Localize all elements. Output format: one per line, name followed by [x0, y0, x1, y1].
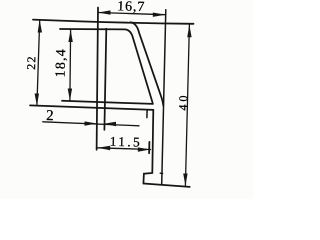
node arrow 11.5 left: [98, 146, 111, 150]
wire nub tick at stem right wall: [160, 172, 162, 174]
node arrow 2 left-pointing (right side): [104, 122, 116, 126]
wire inner top line + inner slant: [60, 29, 153, 103]
node arrow 2 right: [85, 121, 97, 125]
wire left outer vertical wall + extensions: [97, 8, 98, 150]
wire dim line 11.5: [98, 148, 151, 150]
svg-text:22: 22: [24, 55, 38, 70]
node arrow 16,7 left: [98, 10, 111, 14]
node arrow 18,4 top: [68, 30, 72, 42]
wire dim line 40: [185, 25, 189, 186]
wire short tick below outer bottom: [146, 110, 148, 117]
node arrow 40 bottom: [183, 174, 187, 186]
node arrow 40 top: [187, 25, 191, 38]
wire dim line 22: [37, 20, 40, 106]
wire dim line 18,4: [69, 30, 72, 101]
wire stem left wall with foot step: [143, 110, 153, 184]
node arrow 16,7 right: [153, 13, 166, 17]
wire outer slant: [131, 22, 164, 105]
svg-text:40: 40: [176, 92, 190, 110]
node arrow 22 bottom: [35, 94, 39, 106]
wire 11.5 right extension line: [148, 142, 150, 153]
node arrow 18,4 bottom: [68, 89, 72, 101]
node arrow 22 top: [38, 20, 42, 33]
svg-text:2: 2: [46, 108, 54, 124]
svg-text:11.5: 11.5: [110, 134, 143, 150]
wire outer bottom line + 22 extension: [30, 105, 153, 110]
wire stem right wall long line (16,7 extension to foot): [162, 10, 166, 185]
wire left inner vertical wall: [104, 29, 106, 130]
node arrow 11.5 right: [138, 147, 151, 151]
wire dim line 16,7: [98, 13, 165, 15]
wire inner bottom line + 18,4 extension: [62, 101, 153, 104]
wire leader line 2: [43, 122, 139, 126]
wire top outer line + 22/40 extension: [33, 20, 194, 24]
svg-text:16,7: 16,7: [117, 0, 145, 15]
svg-text:18,4: 18,4: [54, 48, 70, 78]
wire foot bottom line + 40 extension: [143, 184, 189, 187]
